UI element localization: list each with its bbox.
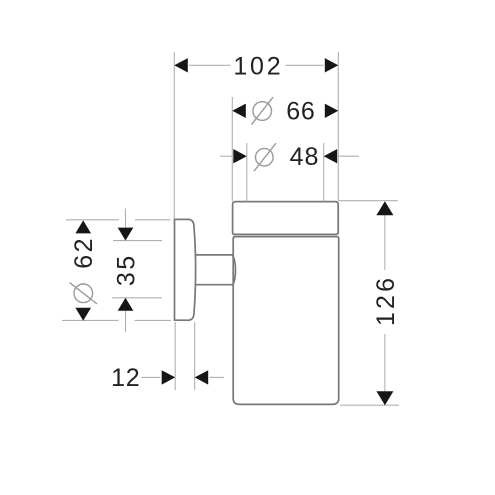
diameter symbol 62 [70, 283, 98, 304]
svg-text:48: 48 [290, 143, 320, 171]
dimension line 35 bottom stub [125, 311, 127, 333]
extension line top of dia 62 [66, 219, 119, 221]
dimension line 48 left leader [220, 155, 233, 157]
wall plate outline [175, 219, 196, 320]
bracket arm bottom edge [195, 284, 233, 286]
arrow 12 left [162, 370, 176, 384]
extension line top of 126 [339, 200, 398, 202]
dimension line 126 lower segment [384, 334, 386, 392]
arrow 102 right [325, 58, 339, 72]
arrow 48 right [324, 149, 338, 163]
tick line 35 bottom [112, 297, 162, 299]
svg-text:102: 102 [233, 52, 283, 80]
bracket arm top edge [195, 254, 233, 256]
dimension line 35 top stub [125, 209, 127, 228]
dimension line 102 left segment [189, 64, 231, 66]
extension line left of 66 [231, 97, 233, 201]
svg-text:12: 12 [111, 364, 140, 392]
svg-text:126: 126 [372, 275, 400, 326]
dimension line 12 left leader [142, 376, 161, 378]
svg-text:66: 66 [286, 98, 315, 126]
dimension line 12 right leader [210, 376, 225, 378]
arrow 35 down [118, 228, 134, 241]
bracket arm end arc [232, 255, 235, 285]
extension line 12 right [194, 322, 196, 390]
extension line right of 48 [323, 143, 325, 201]
dimension line 126 upper segment [384, 215, 386, 270]
extension line right of 102/66 [337, 52, 339, 201]
arrow 12 right [195, 370, 209, 384]
tumbler rim outline [233, 202, 339, 235]
arrow 48 left [233, 149, 247, 163]
extension line left of 102 / plate left [173, 52, 175, 219]
arrow 66 left [232, 104, 246, 118]
arrow 35 up [118, 298, 134, 311]
arrow 126 down [376, 391, 393, 405]
tumbler body outline [233, 237, 339, 405]
extension line 12 left [174, 322, 176, 390]
svg-text:62: 62 [70, 236, 98, 269]
arrow 102 left [174, 58, 188, 72]
diameter symbol 48 [254, 143, 276, 171]
arrow 62 down [75, 308, 91, 321]
extension line left of 48 [246, 143, 248, 201]
extension line bottom of dia 62 [62, 319, 119, 321]
extension line bottom of 126 [340, 404, 399, 406]
svg-text:35: 35 [112, 253, 140, 286]
arrow 66 right [325, 104, 339, 118]
arrow 126 up [376, 201, 393, 215]
dimension line 48 right leader [338, 155, 359, 157]
dimension line 102 right segment [286, 64, 324, 66]
arrow 62 up [75, 220, 91, 233]
diameter symbol 66 [252, 97, 274, 124]
tick line 35 top [113, 240, 162, 242]
